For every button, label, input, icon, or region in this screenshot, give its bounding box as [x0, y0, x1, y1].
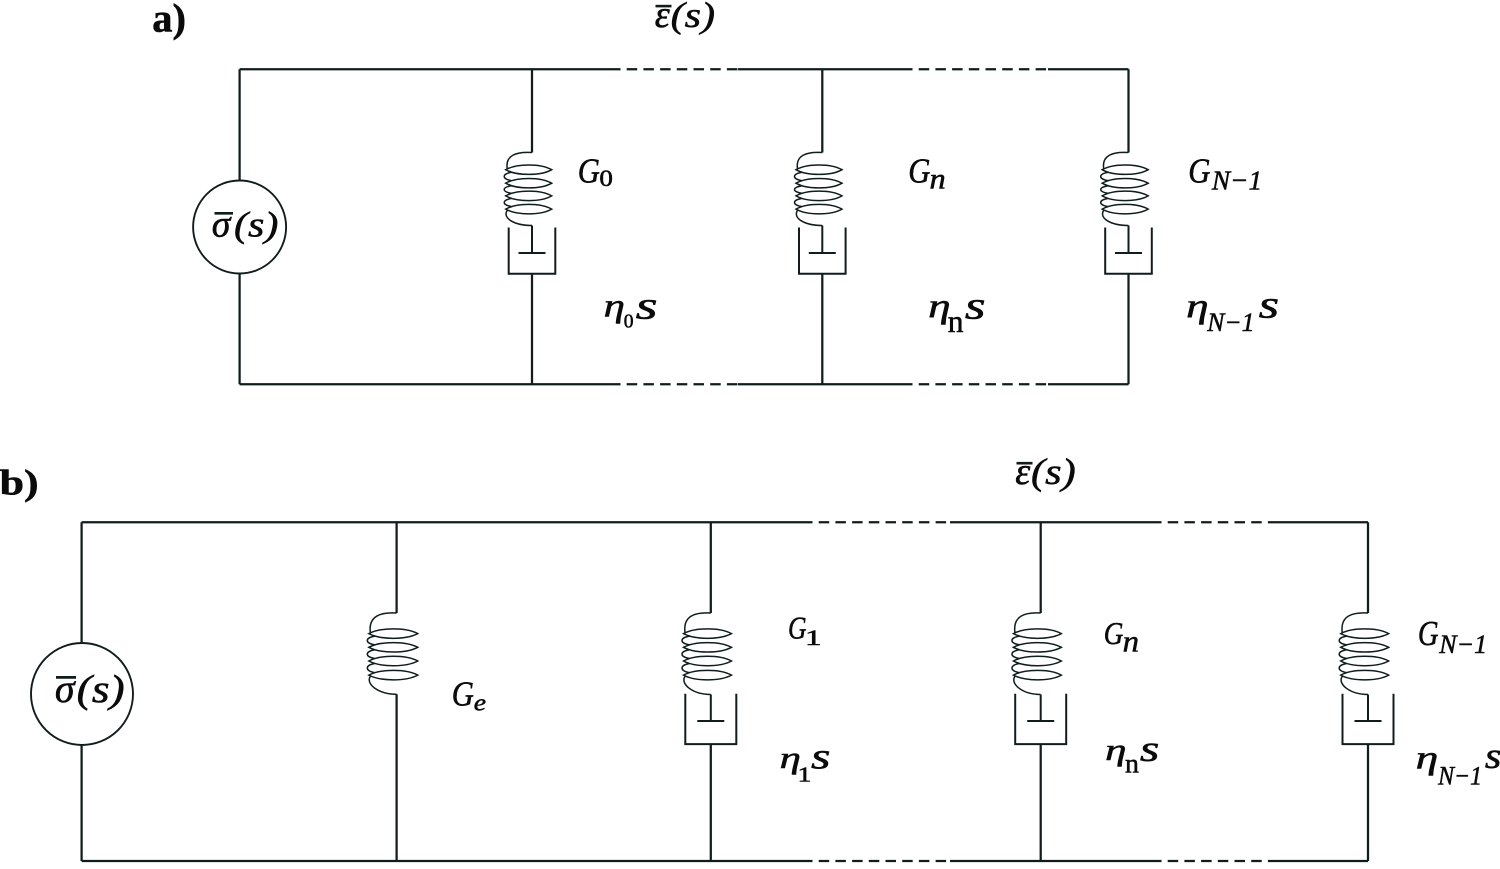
wire: branch n b upper [1040, 522, 1042, 613]
svg-text:(s): (s) [234, 205, 278, 245]
svg-text:G: G [1418, 613, 1439, 653]
wire: branch n b lower [1040, 744, 1042, 861]
svg-text:G: G [578, 151, 600, 191]
wire: bottom bus a, dashed span 1 [610, 383, 738, 385]
svg-text:N−1: N−1 [1438, 630, 1487, 659]
svg-text:N−1: N−1 [1206, 308, 1254, 337]
wire: top bus b, solid middle span [950, 521, 1151, 523]
spring G_1 coil (b) [682, 613, 732, 695]
source sigma(s) circle b [31, 643, 133, 745]
svg-text:s: s [1485, 735, 1500, 776]
svg-text:(s): (s) [1031, 452, 1076, 493]
wire: left leg b upper [80, 522, 82, 643]
svg-text:η: η [604, 289, 625, 325]
svg-text:N−1: N−1 [1437, 761, 1482, 790]
wire: top bus a, dashed span 1 [610, 68, 738, 70]
overbar of epsilon (a) [656, 5, 672, 8]
wire: bottom bus a, dashed span 2 [902, 383, 1048, 385]
svg-text:1: 1 [798, 763, 812, 787]
svg-text:a): a) [152, 0, 186, 40]
wire: bottom bus b, dashed span 2 [1151, 860, 1272, 862]
wire: top bus a, solid middle span [738, 68, 902, 70]
wire: bottom bus b, solid right span [1272, 860, 1368, 862]
wire: branch Ge lower [395, 694, 397, 861]
svg-text:s: s [1259, 283, 1280, 326]
wire: top bus b, solid right span [1272, 521, 1368, 523]
svg-text:e: e [474, 689, 486, 716]
wire: branch Ge upper [395, 522, 397, 613]
wire: top bus b, dashed span 2 [1151, 521, 1272, 523]
svg-text:σ: σ [55, 666, 76, 711]
svg-text:ε: ε [1015, 451, 1030, 493]
wire: branch N1 b upper [1367, 522, 1369, 613]
wire: branch 1 b lower [710, 744, 712, 861]
wire: left leg b lower [80, 745, 82, 861]
dashpot eta_0s (a) [509, 226, 556, 274]
svg-text:η: η [1416, 741, 1439, 777]
spring G_N1 coil (b) [1339, 613, 1389, 695]
svg-text:G: G [1104, 615, 1124, 651]
svg-text:s: s [1140, 729, 1160, 770]
svg-text:(s): (s) [671, 0, 716, 35]
svg-text:n: n [1123, 625, 1139, 659]
wire: bottom bus b, dashed span 1 [802, 860, 950, 862]
svg-text:0: 0 [624, 312, 634, 333]
svg-text:G: G [788, 609, 807, 645]
spring G_N1 coil (a) [1101, 152, 1149, 225]
dashpot eta_1s (b) [685, 694, 736, 744]
spring G_n coil (b) [1012, 613, 1062, 695]
wire: branch n a upper [821, 69, 823, 152]
wire: top bus a, solid left span [240, 68, 610, 70]
wire: bottom bus a, solid middle span [738, 383, 902, 385]
svg-text:n: n [930, 164, 946, 196]
overbar of epsilon (b) [1017, 462, 1033, 465]
svg-text:0: 0 [599, 166, 613, 191]
wire: left leg a upper [238, 69, 240, 180]
dashpot eta_ns (b) [1015, 694, 1066, 744]
svg-text:b): b) [0, 462, 39, 502]
wire: branch n a lower [821, 274, 823, 385]
svg-text:s: s [636, 284, 658, 328]
svg-text:n: n [1125, 749, 1139, 780]
wire: branch N1 a upper [1127, 69, 1129, 152]
svg-text:(s): (s) [77, 668, 125, 711]
svg-text:s: s [965, 285, 986, 328]
wire: bottom bus b, solid middle span [950, 860, 1151, 862]
svg-text:N−1: N−1 [1211, 166, 1262, 197]
svg-text:η: η [1186, 287, 1209, 325]
spring G_e coil [367, 613, 418, 694]
wire: bottom bus a, solid left span [240, 383, 610, 385]
dashpot eta_N1s (b) [1343, 694, 1394, 744]
spring G_0 coil (a) [504, 152, 552, 225]
wire: branch 0 a upper [531, 69, 533, 152]
svg-text:1: 1 [805, 626, 822, 650]
dashpot eta_N1s (a) [1105, 226, 1152, 274]
spring G_n coil (a) [795, 152, 843, 225]
svg-text:η: η [1105, 732, 1126, 767]
source sigma(s) circle a [193, 181, 286, 274]
wire: left leg a lower [238, 274, 240, 385]
wire: bottom bus b, solid left span [82, 860, 802, 862]
wire: top bus b, dashed span 1 [802, 521, 950, 523]
svg-text:n: n [948, 304, 964, 339]
wire: branch N1 b lower [1367, 744, 1369, 861]
wire: branch 0 a lower [531, 274, 533, 385]
wire: bottom bus a, solid right span [1048, 383, 1129, 385]
wire: branch 1 b upper [710, 522, 712, 613]
wire: branch N1 a lower [1127, 274, 1129, 385]
wire: top bus a, solid right span [1048, 68, 1129, 70]
overbar of sigma (b) [56, 676, 76, 679]
svg-text:σ: σ [212, 204, 232, 246]
svg-text:s: s [811, 737, 831, 778]
svg-text:G: G [908, 151, 930, 191]
svg-text:G: G [452, 673, 474, 713]
wire: top bus a, dashed span 2 [902, 68, 1048, 70]
overbar of sigma (a) [215, 212, 234, 215]
dashpot eta_ns (a) [799, 226, 846, 274]
svg-text:G: G [1188, 151, 1210, 191]
wire: top bus b, solid left span [82, 521, 802, 523]
